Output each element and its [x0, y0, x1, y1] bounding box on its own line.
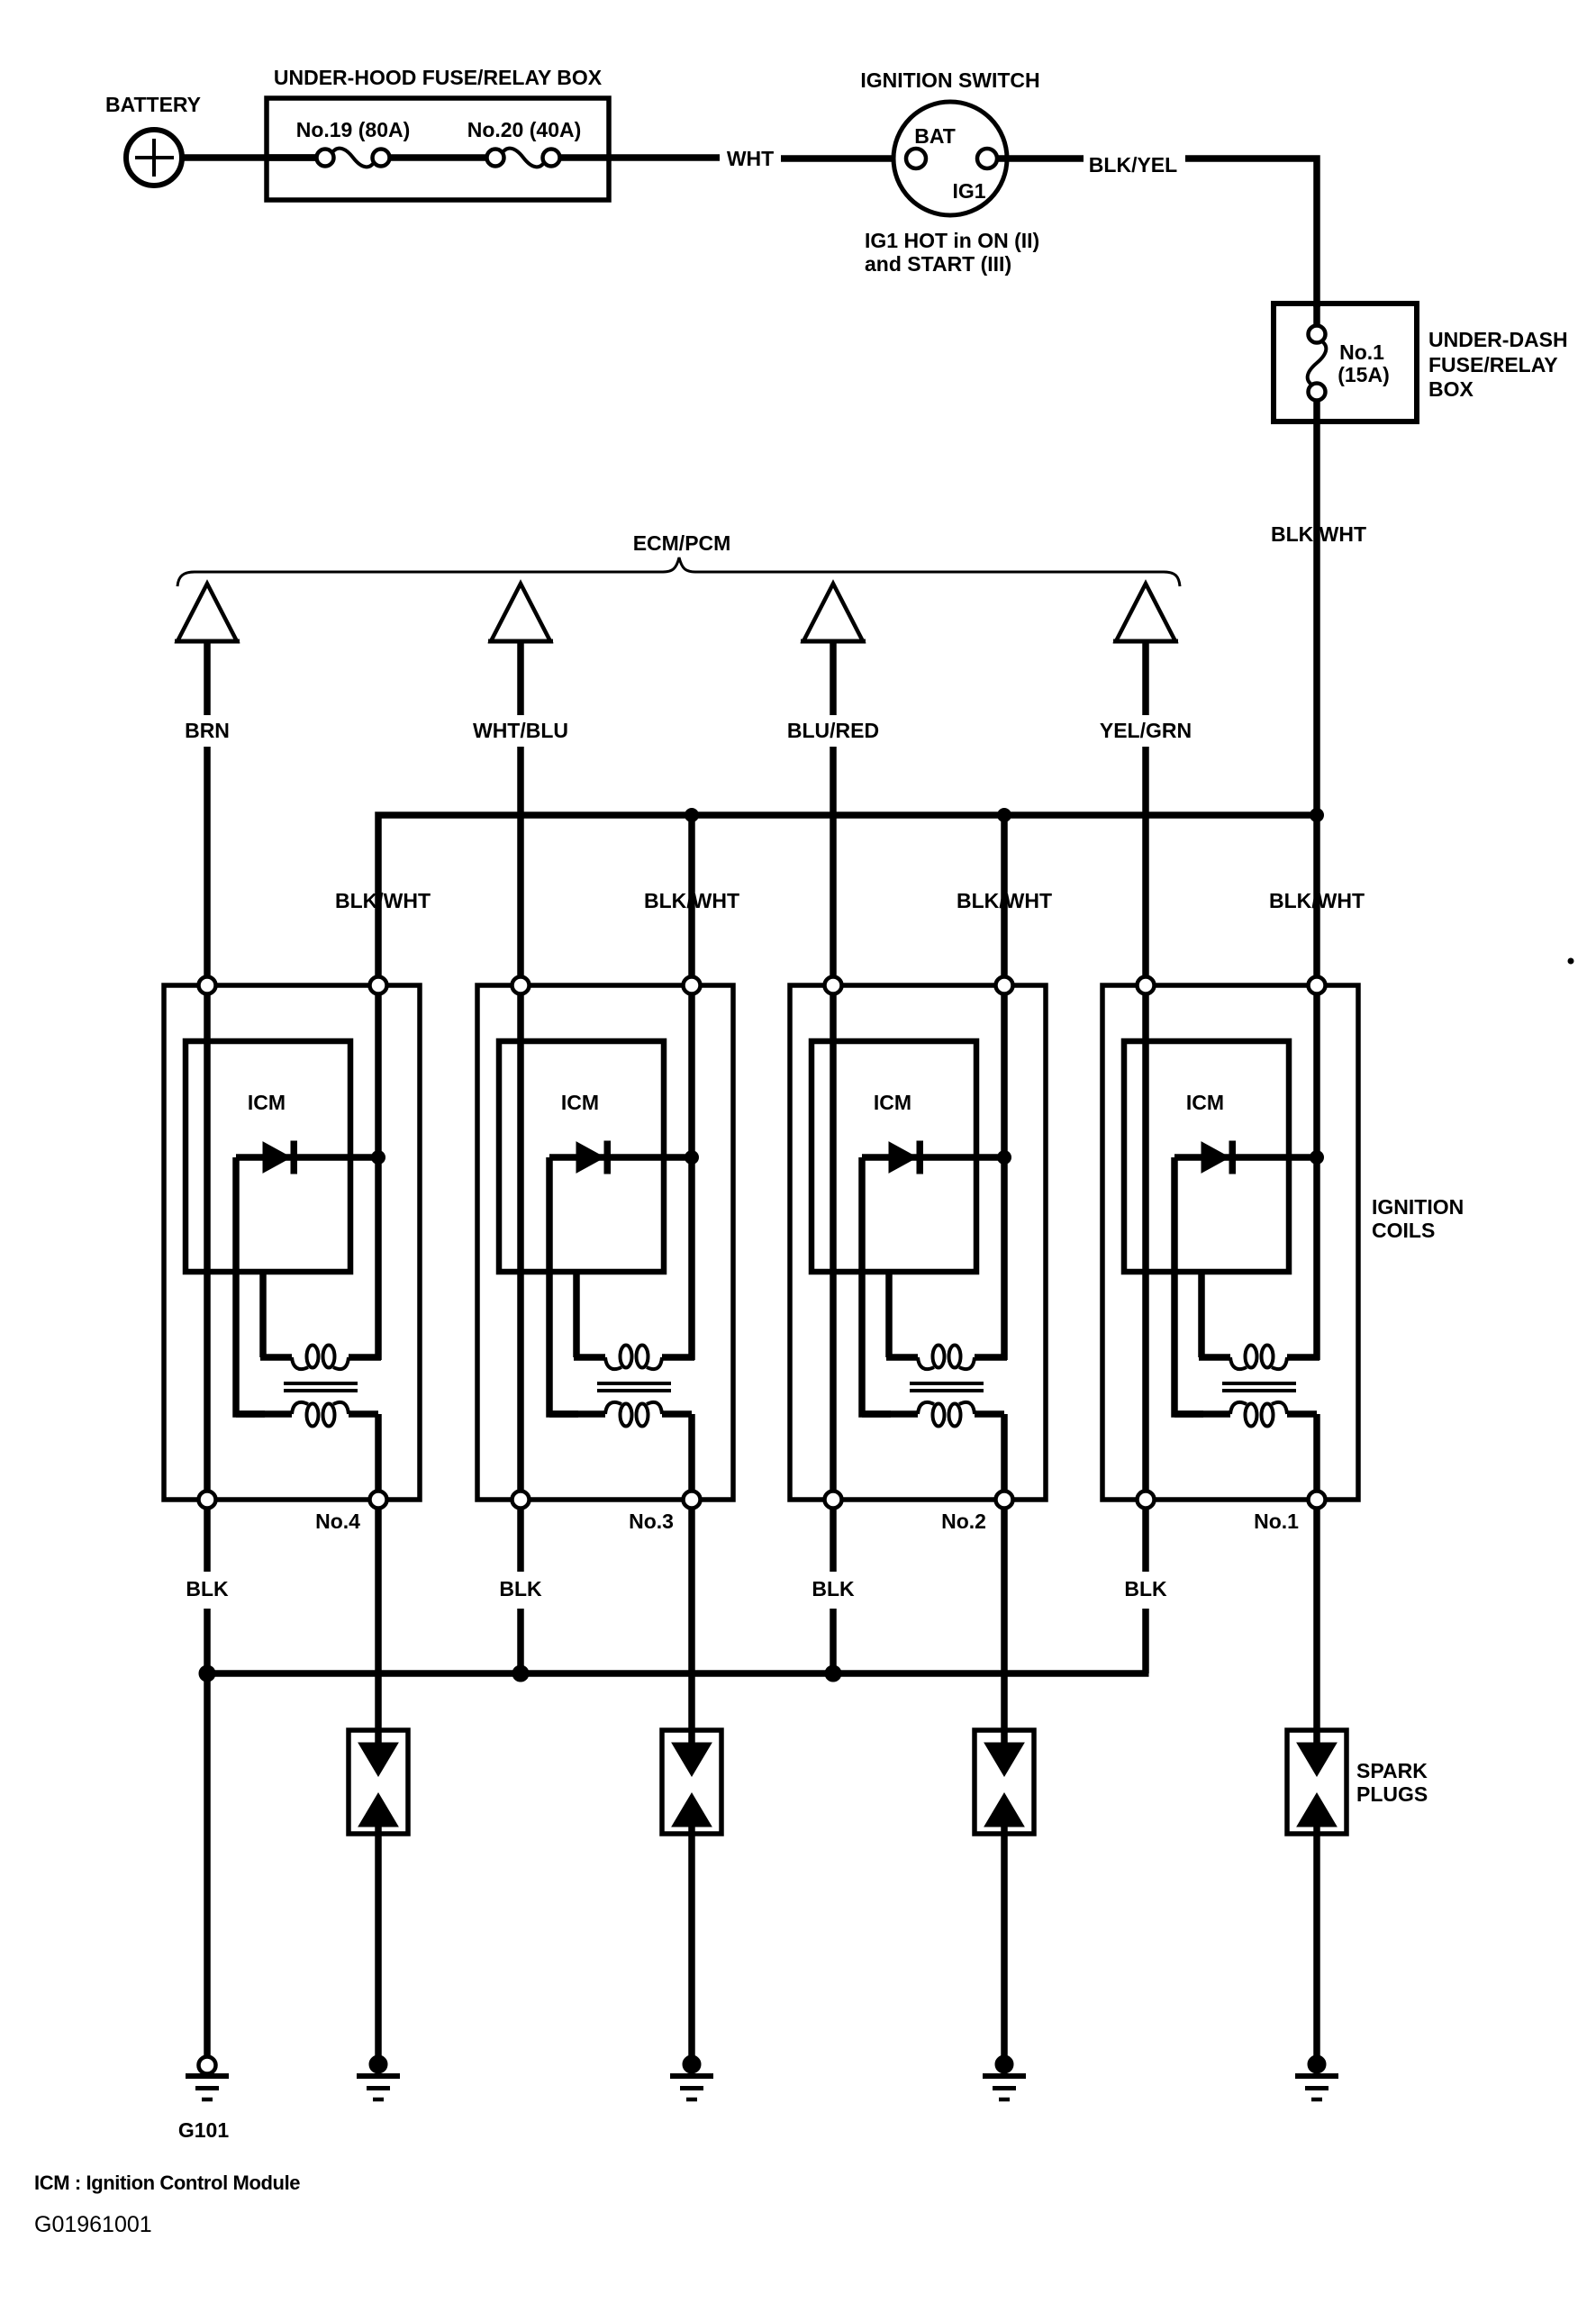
pin bottom-right (No.3) [684, 1492, 701, 1509]
transformer core (No.2) [910, 1383, 984, 1391]
svg-text:BLK/WHT: BLK/WHT [335, 889, 431, 912]
fuse No.1 (15A) [1308, 326, 1327, 401]
pin bottom-right (No.4) [370, 1492, 387, 1509]
svg-text:COILS: COILS [1372, 1219, 1435, 1242]
wire BLK lower segment (No.4) [204, 1609, 211, 1673]
ICM box (No.2) [812, 1041, 976, 1272]
wire coil secondary to spark plug (No.2) [1001, 1509, 1008, 1743]
wire ICM output down to primary (No.2) [885, 1272, 893, 1357]
pin bottom-left (No.4) [199, 1492, 216, 1509]
battery [126, 130, 182, 186]
svg-text:BLK/YEL: BLK/YEL [1089, 153, 1177, 177]
pin top-right (No.4) [370, 977, 387, 994]
ICM box (No.4) [186, 1041, 350, 1272]
svg-text:FUSE/RELAY: FUSE/RELAY [1428, 353, 1558, 376]
ignition coil No.2 outer box [790, 985, 1046, 1500]
under-hood fuse/relay box [267, 98, 609, 200]
label No.1 (15A) [1338, 340, 1390, 386]
wire secondary to bottom pin (No.2) [1001, 1414, 1008, 1500]
pin top-right (No.2) [996, 977, 1013, 994]
pin top-left (No.4) [199, 977, 216, 994]
spark plug (No.2) [975, 1730, 1034, 1834]
label SPARK PLUGS [1356, 1759, 1428, 1806]
svg-text:UNDER-HOOD FUSE/RELAY BOX: UNDER-HOOD FUSE/RELAY BOX [274, 66, 603, 89]
wire left pin through ICM (No.4) [204, 985, 211, 1500]
transformer primary winding (No.2) [886, 1346, 1007, 1370]
svg-text:BLK: BLK [812, 1577, 855, 1600]
wire diode down to secondary (No.2) [862, 1157, 891, 1414]
wire drop to coil No.3 [688, 815, 695, 981]
fuse No.20 (40A) [487, 149, 560, 168]
pin top-left (No.1) [1138, 977, 1155, 994]
svg-text:BLK/WHT: BLK/WHT [957, 889, 1052, 912]
pin bottom-left (No.2) [825, 1492, 842, 1509]
wire diode down to secondary (No.1) [1174, 1157, 1203, 1414]
ignition coil No.4 outer box [164, 985, 420, 1500]
wire diode down to secondary (No.3) [549, 1157, 578, 1414]
ground G101 [186, 2057, 229, 2100]
pin top-right (No.3) [684, 977, 701, 994]
svg-text:WHT: WHT [727, 147, 774, 170]
svg-text:ICM : Ignition Control Module: ICM : Ignition Control Module [34, 2172, 300, 2194]
wire bus BLK/WHT horizontal [378, 815, 1320, 982]
wire spark plug to ground (No.4) [375, 1827, 382, 2056]
wire secondary to bottom pin (No.4) [375, 1414, 382, 1500]
diode (No.3) [549, 1141, 692, 1174]
connector triangle to ECM/PCM (WHT/BLU) [488, 584, 553, 641]
wire coil secondary to spark plug (No.4) [375, 1509, 382, 1743]
svg-text:UNDER-DASH: UNDER-DASH [1428, 328, 1568, 351]
spark plug (No.1) [1287, 1730, 1347, 1834]
wire secondary to bottom pin (No.3) [688, 1414, 695, 1500]
svg-text:G101: G101 [178, 2118, 229, 2142]
wire right pin down (No.1) [1313, 985, 1320, 1360]
svg-text:BLK: BLK [186, 1577, 229, 1600]
junction dot diode/secondary supply (No.3) [685, 1151, 699, 1165]
wire left pin through ICM (No.1) [1142, 985, 1149, 1500]
wire BRN lower segment [204, 747, 211, 981]
wire BLU/RED upper segment [830, 643, 837, 715]
svg-text:IGNITION: IGNITION [1372, 1195, 1464, 1219]
wire diode down to secondary (No.4) [236, 1157, 265, 1414]
junction dot diode/secondary supply (No.1) [1310, 1151, 1324, 1165]
junction dot bus/coil3 [998, 809, 1011, 822]
junction dot ground bus coil3 [512, 1665, 529, 1682]
svg-text:BOX: BOX [1428, 377, 1474, 401]
svg-text:No.3: No.3 [629, 1510, 674, 1533]
svg-text:BLK: BLK [499, 1577, 542, 1600]
wire drop to coil No.1 [1313, 815, 1320, 981]
ground spark plug (No.3) [670, 2055, 713, 2099]
wire BLK upper segment (No.2) [830, 1509, 837, 1572]
svg-text:ICM: ICM [248, 1091, 286, 1114]
transformer primary winding (No.3) [574, 1346, 694, 1370]
connector triangle to ECM/PCM (BRN) [175, 584, 240, 641]
wire coil secondary to spark plug (No.1) [1313, 1509, 1320, 1743]
svg-text:IG1 HOT in ON (II): IG1 HOT in ON (II) [865, 229, 1039, 252]
svg-text:G01961001: G01961001 [34, 2212, 152, 2237]
wire drop to coil No.2 [1001, 815, 1008, 981]
wire left pin through ICM (No.2) [830, 985, 837, 1500]
wire BRN upper segment [204, 643, 211, 715]
speck [1568, 958, 1573, 964]
wire BLK upper segment (No.1) [1142, 1509, 1149, 1572]
wire WHT to ignition switch [781, 155, 906, 162]
pin bottom-right (No.2) [996, 1492, 1013, 1509]
svg-text:No.2: No.2 [941, 1510, 986, 1533]
svg-text:IGNITION SWITCH: IGNITION SWITCH [860, 68, 1039, 92]
svg-text:BLK: BLK [1124, 1577, 1167, 1600]
wire ICM output down to primary (No.1) [1198, 1272, 1205, 1357]
transformer core (No.3) [597, 1383, 671, 1391]
wire right pin down (No.3) [688, 985, 695, 1360]
brace ECM/PCM [177, 558, 1180, 586]
wire fuse No.1 down [1313, 400, 1320, 422]
ignition coil No.1 outer box [1102, 985, 1358, 1500]
wire ICM output down to primary (No.4) [259, 1272, 267, 1357]
svg-text:IG1: IG1 [952, 179, 985, 203]
wire battery to under-hood fuse box [182, 154, 317, 161]
pin bottom-left (No.1) [1138, 1492, 1155, 1509]
ICM box (No.1) [1124, 1041, 1289, 1272]
wire bus to G101 [204, 1673, 211, 2057]
svg-text:ECM/PCM: ECM/PCM [633, 531, 731, 555]
transformer secondary winding (No.4) [236, 1402, 378, 1427]
wire BLK upper segment (No.4) [204, 1509, 211, 1572]
svg-text:No.19 (80A): No.19 (80A) [296, 118, 411, 141]
transformer secondary winding (No.2) [862, 1402, 1004, 1427]
transformer core (No.1) [1222, 1383, 1296, 1391]
wire BLU/RED lower segment [830, 747, 837, 981]
svg-text:BLK/WHT: BLK/WHT [1271, 522, 1366, 546]
svg-text:(15A): (15A) [1338, 363, 1390, 386]
transformer primary winding (No.1) [1199, 1346, 1319, 1370]
connector triangle to ECM/PCM (BLU/RED) [801, 584, 866, 641]
wire BLK upper segment (No.3) [517, 1509, 524, 1572]
junction dot diode/secondary supply (No.4) [372, 1151, 385, 1165]
ICM box (No.3) [499, 1041, 664, 1272]
junction dot ground bus coil4 [199, 1665, 215, 1682]
pin top-right (No.1) [1309, 977, 1326, 994]
ground spark plug (No.1) [1295, 2055, 1338, 2099]
wire YEL/GRN lower segment [1142, 747, 1149, 981]
fuse No.19 (80A) [317, 149, 390, 168]
wire into fuse No.19 [267, 154, 317, 161]
spark plug (No.4) [349, 1730, 408, 1834]
under-dash fuse/relay box [1274, 304, 1417, 422]
wire coil secondary to spark plug (No.3) [688, 1509, 695, 1743]
transformer primary winding (No.4) [260, 1346, 381, 1370]
wire spark plug to ground (No.2) [1001, 1827, 1008, 2056]
wire ground bus [207, 1670, 1149, 1677]
spark plug (No.3) [662, 1730, 721, 1834]
wire BLK lower segment (No.2) [830, 1609, 837, 1673]
svg-text:ICM: ICM [561, 1091, 599, 1114]
svg-text:BATTERY: BATTERY [105, 93, 201, 116]
ignition coil No.3 outer box [477, 985, 733, 1500]
svg-text:No.1: No.1 [1254, 1510, 1299, 1533]
wire BLK/YEL to under-dash box [1185, 159, 1317, 307]
wire spark plug to ground (No.1) [1313, 1827, 1320, 2056]
wire left pin through ICM (No.3) [517, 985, 524, 1500]
label UNDER-DASH FUSE/RELAY BOX [1428, 328, 1568, 401]
pin bottom-right (No.1) [1309, 1492, 1326, 1509]
transformer secondary winding (No.1) [1174, 1402, 1317, 1427]
svg-text:BAT: BAT [914, 124, 956, 148]
svg-text:BLU/RED: BLU/RED [787, 719, 879, 742]
wire right pin down (No.2) [1001, 985, 1008, 1360]
svg-text:and START (III): and START (III) [865, 252, 1011, 276]
wire spark plug to ground (No.3) [688, 1827, 695, 2056]
svg-text:No.20 (40A): No.20 (40A) [467, 118, 582, 141]
wire fuse box to WHT [559, 154, 720, 161]
svg-text:PLUGS: PLUGS [1356, 1782, 1428, 1806]
wire into fuse No.1 [1313, 304, 1320, 327]
ground spark plug (No.2) [983, 2055, 1026, 2099]
junction dot bus/main [1310, 809, 1324, 822]
wire BLK lower segment (No.3) [517, 1609, 524, 1673]
wire YEL/GRN upper segment [1142, 643, 1149, 715]
connector triangle to ECM/PCM (YEL/GRN) [1113, 584, 1178, 641]
svg-text:BLK/WHT: BLK/WHT [1269, 889, 1365, 912]
svg-text:SPARK: SPARK [1356, 1759, 1428, 1782]
ignition switch [893, 102, 1007, 215]
diode (No.2) [862, 1141, 1004, 1174]
svg-text:BLK/WHT: BLK/WHT [644, 889, 739, 912]
svg-text:YEL/GRN: YEL/GRN [1100, 719, 1192, 742]
svg-text:No.1: No.1 [1339, 340, 1384, 364]
svg-text:BRN: BRN [185, 719, 230, 742]
wire ICM output down to primary (No.3) [573, 1272, 580, 1357]
ground spark plug (No.4) [357, 2055, 400, 2099]
wire BLK lower segment (No.1) [1142, 1609, 1149, 1673]
transformer secondary winding (No.3) [549, 1402, 692, 1427]
diode (No.1) [1174, 1141, 1317, 1174]
wire ignition switch to BLK/YEL [997, 155, 1084, 162]
svg-text:ICM: ICM [1186, 1091, 1224, 1114]
pin bottom-left (No.3) [512, 1492, 530, 1509]
wire WHT/BLU lower segment [517, 747, 524, 981]
junction dot ground bus coil2 [825, 1665, 841, 1682]
svg-text:ICM: ICM [874, 1091, 911, 1114]
wire secondary to bottom pin (No.1) [1313, 1414, 1320, 1500]
pin top-left (No.2) [825, 977, 842, 994]
junction dot bus/coil2 [685, 809, 699, 822]
diode (No.4) [236, 1141, 378, 1174]
label IGNITION COILS [1372, 1195, 1464, 1242]
svg-text:No.4: No.4 [315, 1510, 360, 1533]
wire right pin down (No.4) [375, 985, 382, 1360]
transformer core (No.4) [284, 1383, 358, 1391]
svg-text:WHT/BLU: WHT/BLU [473, 719, 568, 742]
junction dot diode/secondary supply (No.2) [998, 1151, 1011, 1165]
pin top-left (No.3) [512, 977, 530, 994]
wire WHT/BLU upper segment [517, 643, 524, 715]
wire between fuses [389, 154, 487, 161]
